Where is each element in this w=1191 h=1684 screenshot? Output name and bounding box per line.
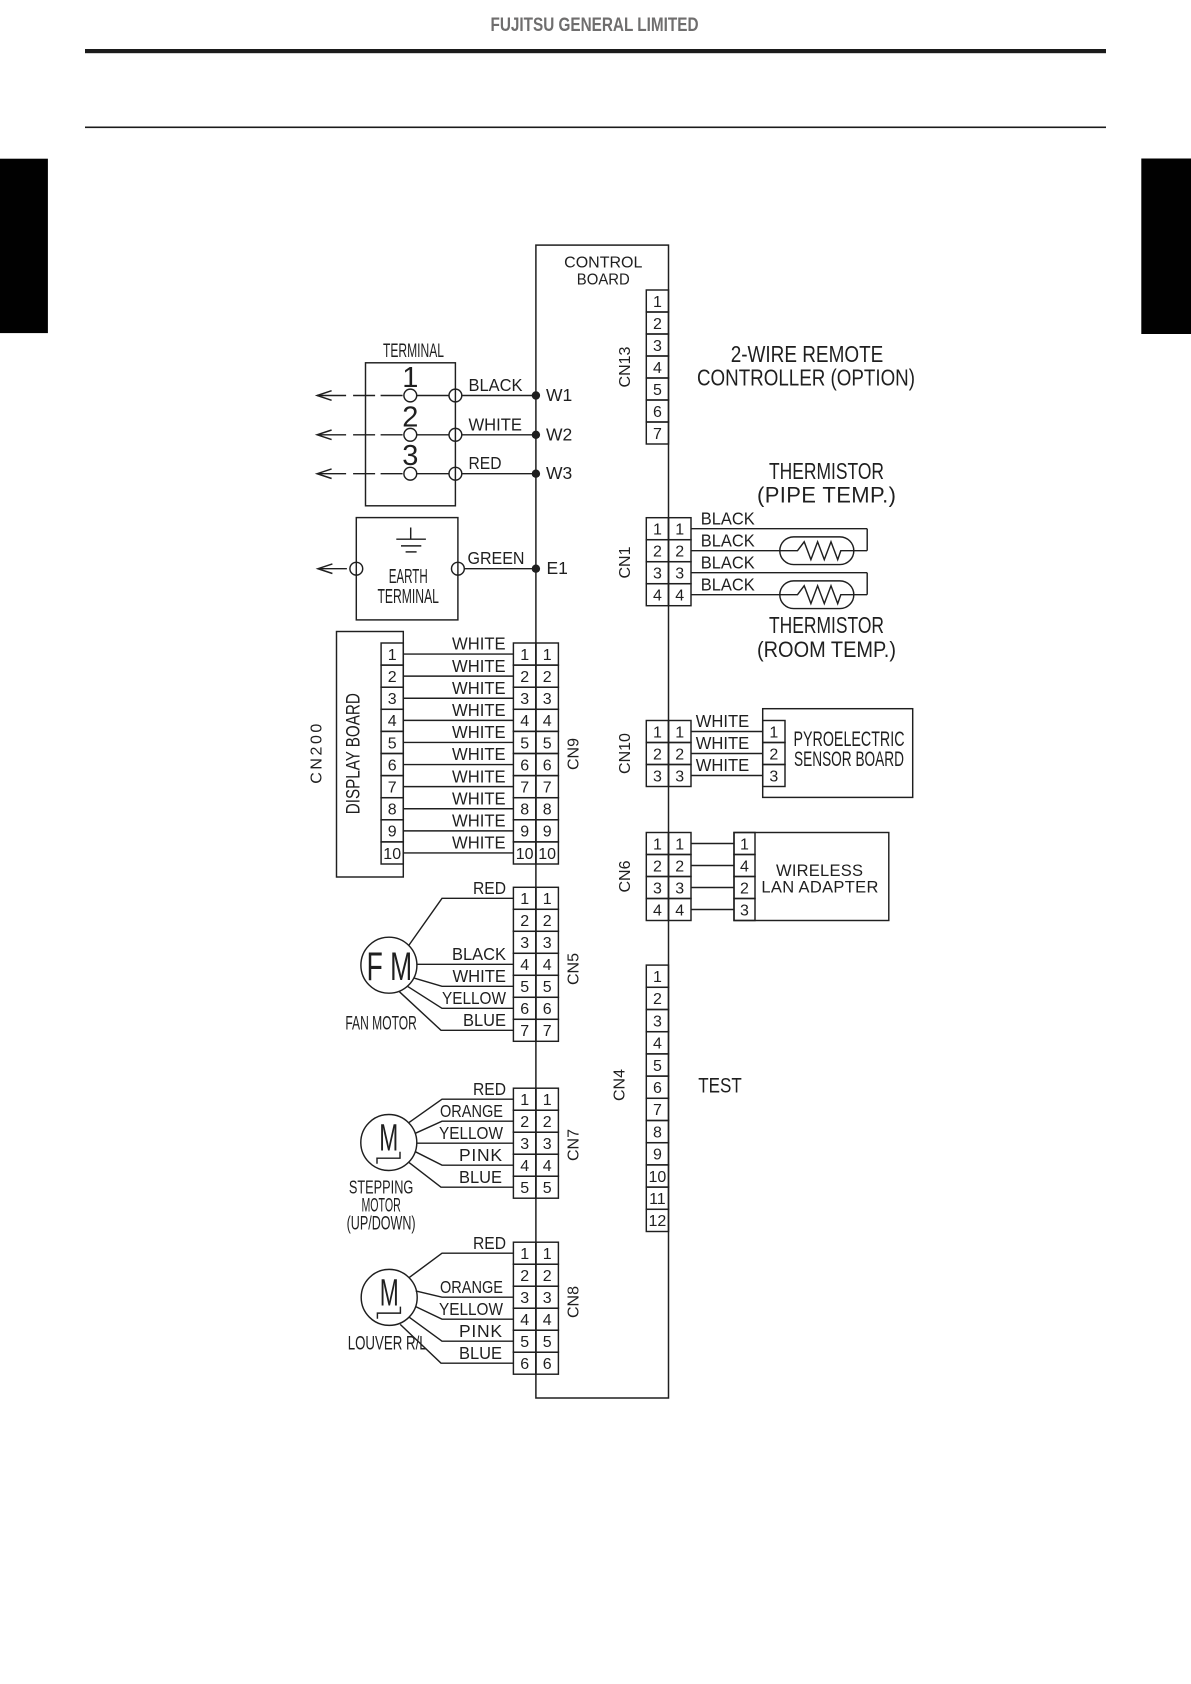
svg-text:7: 7: [543, 1023, 552, 1040]
left edge black tab: [0, 159, 48, 333]
svg-text:1: 1: [675, 522, 684, 539]
svg-text:BLACK: BLACK: [452, 944, 506, 964]
svg-text:4: 4: [543, 713, 552, 730]
svg-text:BLACK: BLACK: [701, 574, 755, 594]
connector CN1 pins 1-4: [646, 518, 691, 606]
svg-text:8: 8: [543, 802, 552, 819]
svg-text:CN13: CN13: [617, 346, 634, 387]
earth screw circles: [350, 562, 464, 575]
svg-text:9: 9: [520, 824, 529, 841]
svg-text:5: 5: [520, 735, 529, 752]
svg-text:BLUE: BLUE: [463, 1010, 506, 1030]
svg-text:5: 5: [653, 382, 662, 399]
header thin rule: [85, 127, 1106, 129]
svg-text:2: 2: [653, 991, 662, 1008]
wire WHITE CN200-7 to CN9-7: [403, 766, 513, 786]
wire PINK louver to CN8-5: [409, 1317, 513, 1341]
svg-text:BLACK: BLACK: [701, 530, 755, 550]
wire WHITE CN200-3 to CN9-3: [403, 678, 513, 698]
svg-text:8: 8: [653, 1124, 662, 1141]
svg-text:1: 1: [653, 724, 662, 741]
wire RED louver to CN8-1: [409, 1233, 513, 1278]
wire BLACK fan to CN5-4: [417, 944, 514, 964]
connector CN13 pins 1-7: [646, 290, 668, 444]
svg-text:3: 3: [520, 1290, 529, 1307]
control board title: [564, 254, 642, 288]
wire PINK stepping to CN7-4: [415, 1145, 513, 1165]
svg-text:4: 4: [543, 1158, 552, 1175]
svg-text:E1: E1: [547, 558, 568, 578]
label EARTH TERMINAL: [377, 566, 439, 608]
svg-text:RED: RED: [473, 878, 506, 898]
wire BLACK CN1-4: [691, 574, 780, 594]
wire BLUE fan to CN5-7: [400, 992, 514, 1031]
svg-text:5: 5: [653, 1058, 662, 1075]
svg-text:1: 1: [740, 836, 749, 853]
svg-text:4: 4: [543, 1312, 552, 1329]
svg-text:DISPLAY BOARD: DISPLAY BOARD: [343, 693, 364, 814]
wire YELLOW stepping to CN7-3: [417, 1123, 514, 1143]
svg-text:1: 1: [653, 294, 662, 311]
fan motor circle FM: [361, 937, 417, 993]
label CN10: [617, 733, 634, 774]
svg-text:1: 1: [543, 891, 552, 908]
label FAN MOTOR: [345, 1014, 417, 1035]
svg-text:6: 6: [520, 1001, 529, 1018]
svg-text:3: 3: [543, 1290, 552, 1307]
svg-text:3: 3: [543, 1136, 552, 1153]
wire BLACK CN1-2: [691, 530, 780, 550]
svg-text:9: 9: [388, 824, 397, 841]
connector CN4 pins 1-12: [646, 965, 668, 1231]
label TERMINAL: [383, 340, 444, 362]
svg-text:4: 4: [653, 902, 662, 919]
wire CN6-4 to LAN adapter: [691, 909, 734, 911]
louver motor circle M: [361, 1269, 417, 1325]
svg-text:WHITE: WHITE: [452, 788, 506, 808]
svg-text:5: 5: [543, 1334, 552, 1351]
svg-text:2: 2: [740, 880, 749, 897]
svg-text:BOARD: BOARD: [577, 271, 630, 288]
label PYROELECTRIC SENSOR BOARD: [794, 728, 905, 771]
label CN9: [565, 738, 582, 770]
svg-text:10: 10: [516, 846, 534, 863]
svg-text:3: 3: [653, 566, 662, 583]
connector CN8 pins 1-6: [513, 1242, 558, 1374]
node E1: [532, 558, 568, 578]
svg-text:WHITE: WHITE: [452, 810, 506, 830]
svg-text:7: 7: [543, 779, 552, 796]
svg-text:5: 5: [520, 979, 529, 996]
thermistor room temp loop wire: [866, 573, 868, 595]
thermistor R-room (stadium): [780, 581, 867, 609]
svg-text:4: 4: [520, 1158, 529, 1175]
svg-text:3: 3: [653, 338, 662, 355]
svg-text:TERMINAL: TERMINAL: [377, 586, 439, 608]
svg-text:9: 9: [653, 1147, 662, 1164]
svg-text:2: 2: [388, 669, 397, 686]
svg-text:RED: RED: [473, 1233, 506, 1253]
svg-text:4: 4: [653, 588, 662, 605]
svg-text:3: 3: [520, 691, 529, 708]
wireless LAN connector pins 1,4,2,3: [734, 833, 755, 921]
svg-text:THERMISTOR: THERMISTOR: [769, 458, 884, 484]
svg-text:4: 4: [653, 360, 662, 377]
label LOUVER R/L: [348, 1333, 427, 1355]
svg-text:2: 2: [520, 669, 529, 686]
svg-text:CN8: CN8: [565, 1286, 582, 1318]
label CN7: [565, 1129, 582, 1161]
svg-text:PINK: PINK: [459, 1145, 502, 1165]
svg-text:7: 7: [388, 779, 397, 796]
svg-text:9: 9: [543, 824, 552, 841]
svg-text:GREEN: GREEN: [468, 548, 525, 568]
stepping motor circle M: [361, 1115, 417, 1171]
wire WHITE terminal2 to W2: [462, 414, 536, 435]
wire ORANGE louver to CN8-3: [416, 1277, 514, 1297]
svg-text:4: 4: [543, 957, 552, 974]
svg-text:LOUVER R/L: LOUVER R/L: [348, 1333, 427, 1355]
header thick rule: [85, 49, 1106, 53]
terminal 1 screw circles and row line: [402, 362, 462, 402]
svg-text:RED: RED: [469, 453, 502, 473]
connector CN200 pins 1-10: [381, 643, 403, 864]
svg-text:BLACK: BLACK: [701, 552, 755, 572]
svg-text:5: 5: [543, 979, 552, 996]
svg-text:3: 3: [675, 768, 684, 785]
svg-text:3: 3: [653, 768, 662, 785]
connector CN10 pins 1-3: [646, 721, 691, 787]
svg-text:4: 4: [388, 713, 397, 730]
wire WHITE CN200-9 to CN9-9: [403, 810, 513, 830]
svg-text:1: 1: [675, 724, 684, 741]
svg-text:4: 4: [675, 902, 684, 919]
svg-text:4: 4: [675, 588, 684, 605]
wire BLACK CN1-1: [691, 508, 867, 528]
svg-text:3: 3: [520, 935, 529, 952]
svg-text:2: 2: [653, 858, 662, 875]
svg-text:M: M: [379, 1117, 398, 1159]
svg-text:RED: RED: [473, 1079, 506, 1099]
wire WHITE CN200-5 to CN9-5: [403, 722, 513, 742]
pyroelectric sensor board box: [763, 709, 913, 798]
wire RED fan to CN5-1: [409, 878, 514, 946]
label WIRELESS LAN ADAPTER: [761, 862, 878, 897]
svg-text:(PIPE TEMP.): (PIPE TEMP.): [757, 482, 896, 507]
wire CN6-2 to LAN adapter: [691, 865, 734, 867]
field wire arrow 3 (dashed): [317, 469, 404, 479]
connector CN7 pins 1-5: [513, 1088, 558, 1198]
field wire arrow 1 (dashed): [317, 391, 404, 401]
svg-text:1: 1: [769, 724, 778, 741]
wire RED terminal3 to W3: [462, 453, 536, 474]
label CN6: [617, 860, 634, 892]
node W1: [532, 385, 573, 405]
connector CN6 pins 1-4: [646, 833, 691, 921]
svg-text:6: 6: [520, 1356, 529, 1373]
terminal block box: [366, 363, 456, 506]
svg-text:3: 3: [740, 902, 749, 919]
wire BLUE stepping to CN7-5: [409, 1162, 514, 1187]
svg-text:2: 2: [520, 1114, 529, 1131]
svg-text:1: 1: [653, 836, 662, 853]
svg-text:WHITE: WHITE: [453, 966, 507, 986]
wireless LAN adapter box: [734, 833, 889, 921]
svg-text:2: 2: [653, 746, 662, 763]
svg-text:WHITE: WHITE: [469, 414, 523, 434]
svg-text:3: 3: [675, 880, 684, 897]
svg-text:3: 3: [543, 691, 552, 708]
wire WHITE CN10-2 to pyro-2: [691, 733, 763, 753]
earth field wire arrow (dashed): [318, 564, 350, 574]
wire CN6-3 to LAN adapter: [691, 887, 734, 889]
svg-text:ORANGE: ORANGE: [440, 1277, 503, 1297]
svg-text:2-WIRE REMOTE: 2-WIRE REMOTE: [731, 341, 884, 367]
connector CN5 pins 1-7: [513, 887, 558, 1041]
svg-text:ORANGE: ORANGE: [440, 1101, 503, 1121]
label CN200: [308, 724, 325, 784]
svg-text:LAN ADAPTER: LAN ADAPTER: [761, 879, 878, 897]
svg-text:6: 6: [543, 1001, 552, 1018]
node W3: [532, 463, 573, 483]
wire BLACK terminal1 to W1: [462, 375, 536, 396]
wire WHITE CN10-1 to pyro-1: [691, 711, 763, 731]
svg-text:7: 7: [653, 426, 662, 443]
svg-text:BLUE: BLUE: [459, 1167, 502, 1187]
svg-text:1: 1: [543, 647, 552, 664]
svg-text:6: 6: [543, 1356, 552, 1373]
thermistor R-pipe (stadium): [780, 537, 867, 565]
svg-text:2: 2: [675, 544, 684, 561]
svg-text:2: 2: [543, 1268, 552, 1285]
svg-text:W1: W1: [546, 385, 572, 405]
svg-text:3: 3: [769, 768, 778, 785]
svg-text:WHITE: WHITE: [696, 711, 750, 731]
svg-text:8: 8: [520, 802, 529, 819]
svg-text:WHITE: WHITE: [452, 634, 506, 654]
wire GREEN earth to E1: [464, 548, 536, 569]
pyroelectric connector pins 1-3: [763, 721, 785, 787]
svg-text:11: 11: [649, 1191, 666, 1208]
svg-text:CN1: CN1: [617, 546, 634, 578]
page header: FUJITSU GENERAL LIMITED: [491, 14, 699, 36]
svg-text:(ROOM TEMP.): (ROOM TEMP.): [757, 637, 896, 662]
svg-text:CONTROL: CONTROL: [564, 254, 642, 271]
svg-text:2: 2: [543, 913, 552, 930]
svg-text:3: 3: [543, 935, 552, 952]
svg-text:THERMISTOR: THERMISTOR: [769, 612, 884, 638]
svg-text:BLACK: BLACK: [469, 375, 523, 395]
wire WHITE CN200-10 to CN9-10: [403, 833, 513, 853]
svg-text:6: 6: [653, 404, 662, 421]
svg-text:1: 1: [520, 891, 529, 908]
svg-text:4: 4: [740, 858, 749, 875]
svg-text:12: 12: [649, 1213, 667, 1230]
right edge black tab: [1141, 159, 1191, 335]
svg-text:EARTH: EARTH: [389, 566, 428, 588]
svg-text:3: 3: [520, 1136, 529, 1153]
svg-text:M: M: [380, 1272, 399, 1314]
field wire arrow 2 (dashed): [317, 430, 404, 440]
svg-text:1: 1: [543, 1246, 552, 1263]
svg-text:6: 6: [543, 757, 552, 774]
svg-text:WHITE: WHITE: [452, 766, 506, 786]
svg-text:1: 1: [520, 1092, 529, 1109]
label THERMISTOR (ROOM TEMP.): [757, 612, 896, 662]
svg-text:CN200: CN200: [308, 724, 325, 784]
wire WHITE CN10-3 to pyro-3: [691, 755, 763, 775]
svg-text:WIRELESS: WIRELESS: [776, 862, 863, 880]
svg-text:4: 4: [520, 713, 529, 730]
svg-text:6: 6: [388, 757, 397, 774]
label CN1: [617, 546, 634, 578]
svg-text:(UP/DOWN): (UP/DOWN): [347, 1213, 416, 1234]
svg-text:6: 6: [653, 1080, 662, 1097]
wire ORANGE stepping to CN7-2: [415, 1101, 513, 1133]
svg-text:F M: F M: [367, 945, 413, 989]
wire YELLOW louver to CN8-4: [416, 1299, 514, 1319]
svg-text:3: 3: [388, 691, 397, 708]
svg-text:TEST: TEST: [698, 1074, 742, 1097]
svg-text:2: 2: [543, 669, 552, 686]
terminal 3 screw circles and row line: [402, 440, 462, 480]
svg-text:3: 3: [653, 1013, 662, 1030]
wire WHITE CN200-8 to CN9-8: [403, 788, 513, 808]
svg-text:2: 2: [653, 544, 662, 561]
control board outline: [536, 245, 669, 1398]
svg-text:3: 3: [653, 880, 662, 897]
earth terminal box: [356, 518, 458, 620]
svg-text:WHITE: WHITE: [696, 733, 750, 753]
svg-text:2: 2: [520, 913, 529, 930]
svg-text:7: 7: [520, 779, 529, 796]
svg-text:4: 4: [653, 1036, 662, 1053]
svg-text:2: 2: [653, 316, 662, 333]
svg-text:PINK: PINK: [459, 1321, 502, 1341]
svg-text:CONTROLLER (OPTION): CONTROLLER (OPTION): [697, 364, 915, 390]
svg-text:10: 10: [649, 1169, 667, 1186]
label DISPLAY BOARD: [343, 693, 364, 814]
svg-text:2: 2: [520, 1268, 529, 1285]
svg-text:1: 1: [653, 522, 662, 539]
svg-text:5: 5: [388, 735, 397, 752]
display board box: [337, 632, 404, 878]
svg-text:7: 7: [520, 1023, 529, 1040]
label TEST: [698, 1074, 742, 1097]
svg-text:W3: W3: [546, 463, 572, 483]
svg-text:10: 10: [383, 846, 401, 863]
svg-text:5: 5: [520, 1334, 529, 1351]
label THERMISTOR (PIPE TEMP.): [757, 458, 896, 507]
svg-text:CN10: CN10: [617, 733, 634, 774]
label CN5: [565, 953, 582, 985]
svg-text:W2: W2: [546, 424, 572, 444]
svg-text:WHITE: WHITE: [452, 656, 506, 676]
svg-text:YELLOW: YELLOW: [439, 1299, 503, 1319]
svg-text:5: 5: [543, 1180, 552, 1197]
wire WHITE fan to CN5-5: [415, 966, 514, 986]
thermistor pipe temp loop wire: [866, 529, 868, 551]
svg-text:FAN MOTOR: FAN MOTOR: [345, 1014, 417, 1035]
wire WHITE CN200-2 to CN9-2: [403, 656, 513, 676]
label CN8: [565, 1286, 582, 1318]
svg-text:6: 6: [520, 757, 529, 774]
svg-text:3: 3: [675, 566, 684, 583]
svg-text:4: 4: [520, 957, 529, 974]
svg-text:TERMINAL: TERMINAL: [383, 340, 444, 362]
terminal 2 screw circles and row line: [402, 401, 462, 441]
svg-text:CN5: CN5: [565, 953, 582, 985]
label CN4: [611, 1069, 628, 1101]
svg-text:1: 1: [653, 969, 662, 986]
svg-text:BLUE: BLUE: [459, 1343, 502, 1363]
svg-text:CN4: CN4: [611, 1069, 628, 1101]
svg-text:2: 2: [675, 858, 684, 875]
svg-text:YELLOW: YELLOW: [442, 988, 506, 1008]
svg-text:2: 2: [543, 1114, 552, 1131]
svg-text:CN9: CN9: [565, 738, 582, 770]
connector CN9 pins 1-10: [513, 643, 558, 864]
svg-text:CN6: CN6: [617, 860, 634, 892]
svg-text:1: 1: [520, 1246, 529, 1263]
wire RED stepping to CN7-1: [409, 1079, 514, 1123]
svg-text:5: 5: [520, 1180, 529, 1197]
svg-text:WHITE: WHITE: [452, 678, 506, 698]
wire BLUE louver to CN8-6: [400, 1324, 513, 1363]
node W2: [532, 424, 573, 444]
svg-text:1: 1: [675, 836, 684, 853]
label CN13: [617, 346, 634, 387]
svg-text:FUJITSU GENERAL LIMITED: FUJITSU GENERAL LIMITED: [491, 14, 699, 36]
svg-text:CN7: CN7: [565, 1129, 582, 1161]
svg-text:1: 1: [388, 647, 397, 664]
wire BLACK CN1-3: [691, 552, 867, 572]
svg-text:2: 2: [675, 746, 684, 763]
svg-text:SENSOR BOARD: SENSOR BOARD: [794, 748, 904, 771]
label STEPPING MOTOR (UP/DOWN): [347, 1178, 416, 1235]
svg-text:BLACK: BLACK: [701, 508, 755, 528]
svg-text:7: 7: [653, 1102, 662, 1119]
svg-text:WHITE: WHITE: [696, 755, 750, 775]
svg-text:WHITE: WHITE: [452, 833, 506, 853]
svg-text:2: 2: [769, 746, 778, 763]
wire CN6-1 to LAN adapter: [691, 843, 734, 845]
wire WHITE CN200-4 to CN9-4: [403, 700, 513, 720]
svg-text:1: 1: [543, 1092, 552, 1109]
svg-text:WHITE: WHITE: [452, 700, 506, 720]
wire YELLOW fan to CN5-6: [408, 986, 514, 1008]
svg-text:10: 10: [538, 846, 556, 863]
label 2-WIRE REMOTE CONTROLLER (OPTION): [697, 341, 915, 390]
wire WHITE CN200-6 to CN9-6: [403, 744, 513, 764]
svg-text:YELLOW: YELLOW: [439, 1123, 503, 1143]
svg-text:WHITE: WHITE: [452, 744, 506, 764]
ground symbol: [396, 528, 426, 552]
wire WHITE CN200-1 to CN9-1: [403, 634, 513, 654]
svg-text:1: 1: [520, 647, 529, 664]
svg-text:WHITE: WHITE: [452, 722, 506, 742]
svg-text:4: 4: [520, 1312, 529, 1329]
svg-text:8: 8: [388, 802, 397, 819]
svg-text:5: 5: [543, 735, 552, 752]
